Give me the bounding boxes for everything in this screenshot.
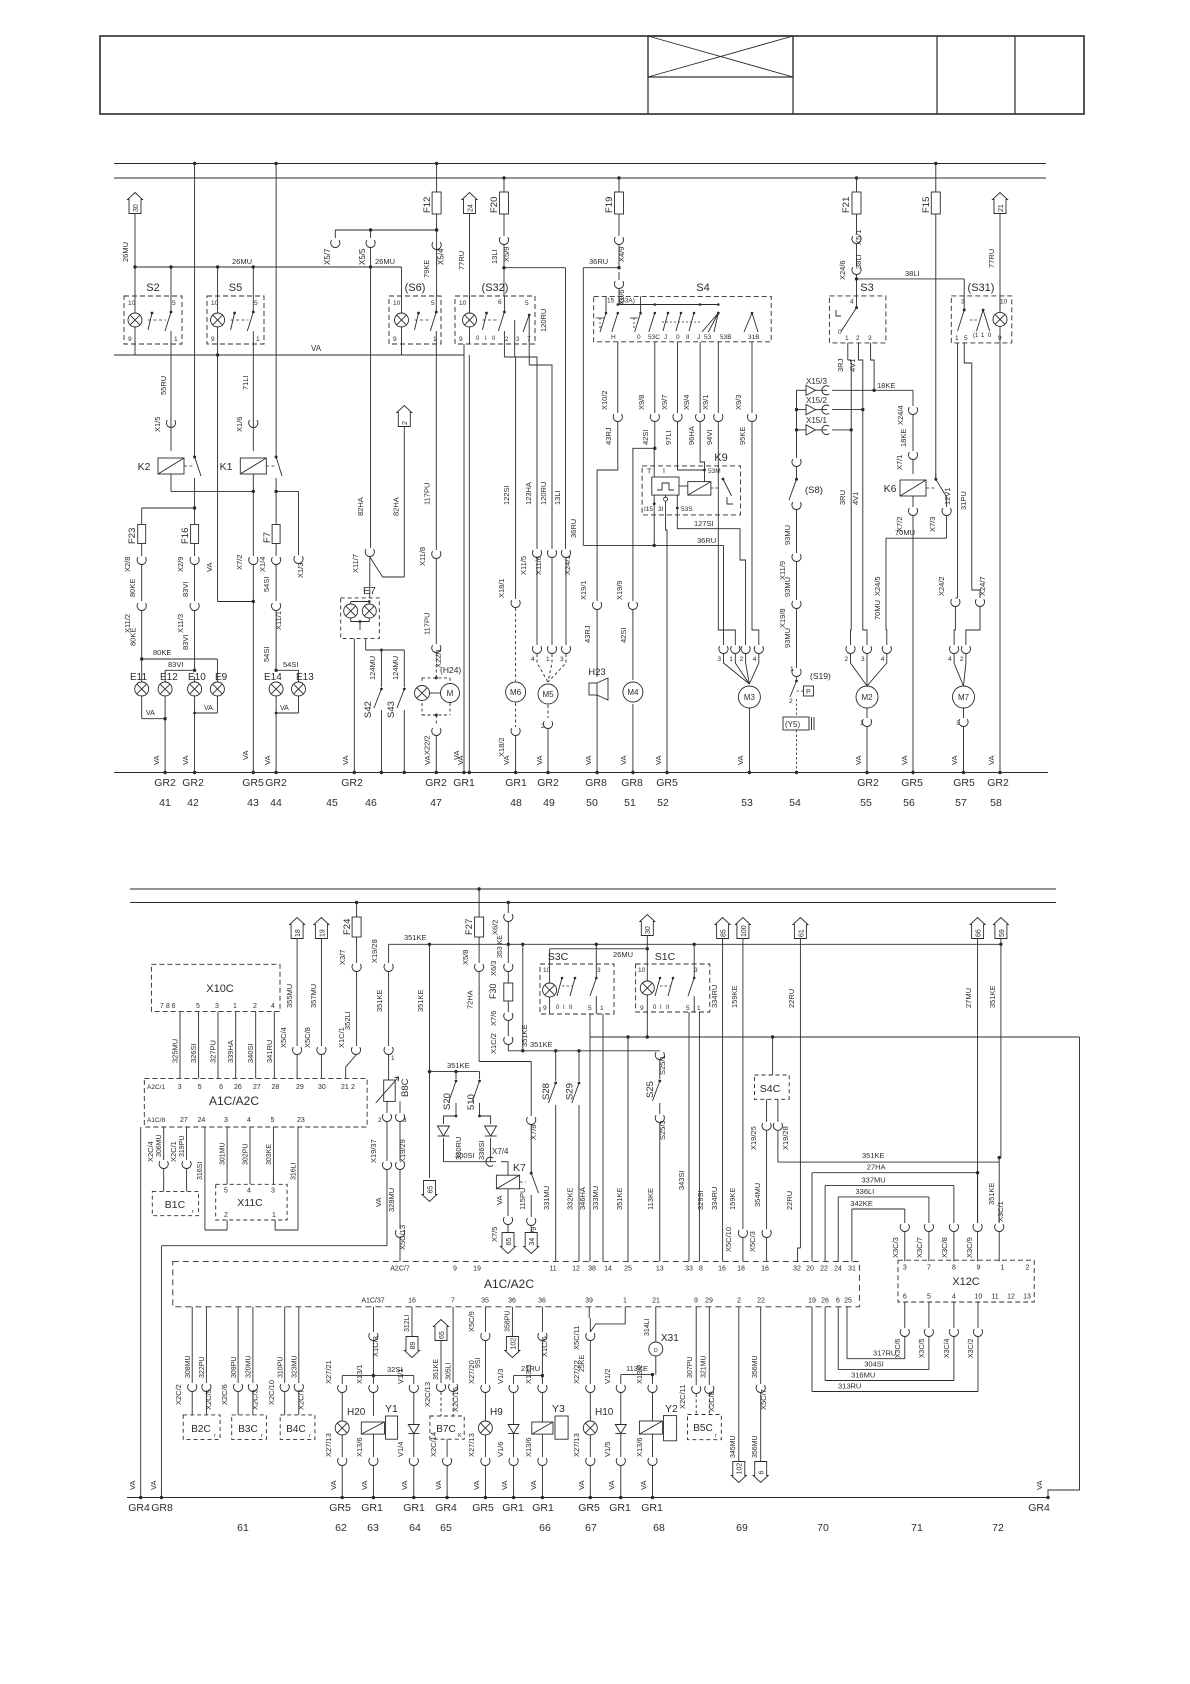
svg-text:GR2: GR2 — [265, 777, 287, 789]
wire 351KE feeder S28/S29 — [523, 1040, 660, 1053]
supply arrow 30 — [128, 193, 143, 268]
diode V1 64 — [396, 1425, 419, 1500]
svg-text:X3C/5: X3C/5 — [919, 1338, 926, 1358]
ground designations row (bottom) — [128, 1502, 1050, 1514]
svg-text:26MU: 26MU — [232, 257, 252, 266]
svg-text:1: 1 — [272, 1212, 276, 1219]
svg-text:GR2: GR2 — [857, 777, 879, 789]
svg-text:65: 65 — [439, 1331, 446, 1339]
svg-text:GR4: GR4 — [128, 1502, 150, 1514]
svg-text:351KE: 351KE — [987, 1182, 996, 1205]
svg-text:B5C: B5C — [693, 1423, 712, 1434]
svg-text:93MU: 93MU — [783, 628, 792, 648]
svg-text:X5C/13: X5C/13 — [398, 1225, 407, 1250]
svg-text:54SI: 54SI — [262, 647, 271, 662]
relay K1 switch — [274, 456, 282, 494]
svg-text:122SI: 122SI — [502, 485, 511, 505]
svg-text:X3C/4: X3C/4 — [944, 1338, 951, 1358]
switch S2 — [124, 282, 182, 344]
svg-text:100: 100 — [741, 925, 748, 937]
svg-text:0: 0 — [637, 334, 641, 341]
wire left VA to GR4 — [128, 1127, 142, 1499]
connector X2/8 — [123, 557, 146, 601]
motor M6 — [497, 682, 526, 774]
wire 316SI to X11C pin2 — [197, 1127, 227, 1230]
svg-text:316SI: 316SI — [197, 1162, 204, 1180]
svg-text:X1C/1: X1C/1 — [337, 1027, 346, 1048]
wire S1C pin5/pin1 drops to pins 33/8 — [677, 1012, 705, 1261]
svg-text:50: 50 — [586, 797, 598, 809]
svg-text:9: 9 — [211, 336, 215, 343]
svg-text:326SI: 326SI — [189, 1043, 198, 1063]
wire 340SI X10C to A1C pin 27 — [246, 1011, 256, 1078]
svg-text:I15: I15 — [644, 506, 653, 513]
wire (S31) lamp to GR2 col58 — [987, 343, 1002, 774]
svg-text:X18/1: X18/1 — [497, 578, 506, 598]
connector X1/4 — [258, 557, 281, 601]
motor M2 body — [854, 686, 878, 774]
svg-text:GR1: GR1 — [361, 1502, 383, 1514]
motor M4 — [619, 682, 643, 774]
svg-text:5: 5 — [172, 300, 176, 307]
svg-text:VA: VA — [400, 1481, 409, 1490]
bus line 15 (top supply rail 2) — [114, 177, 1046, 179]
svg-text:356MU: 356MU — [752, 1355, 759, 1378]
svg-text:X7/8: X7/8 — [529, 1125, 538, 1140]
svg-text:X2C/8: X2C/8 — [707, 1391, 716, 1412]
wire 120RU (S32) to M5 pin1 — [529, 344, 556, 645]
svg-text:E11: E11 — [130, 672, 147, 683]
svg-text:II: II — [569, 1005, 573, 1011]
pressure switch (S19) — [789, 666, 831, 717]
wire GR8 col50 stub — [0, 0, 1, 1]
svg-text:70MU: 70MU — [873, 600, 882, 620]
svg-text:27: 27 — [253, 1084, 261, 1091]
svg-text:2: 2 — [253, 1003, 257, 1010]
svg-text:71: 71 — [911, 1522, 923, 1534]
connector X11C — [216, 1184, 287, 1220]
svg-text:X19/37: X19/37 — [369, 1139, 378, 1163]
svg-text:X5/8: X5/8 — [461, 950, 470, 965]
svg-text:X15/3: X15/3 — [806, 377, 827, 386]
svg-text:X2/9: X2/9 — [176, 557, 185, 572]
svg-text:VA: VA — [1035, 1481, 1044, 1490]
wire 42SI X9/8 to M4 — [615, 342, 659, 680]
svg-text:5: 5 — [198, 1084, 202, 1091]
svg-text:72HA: 72HA — [466, 990, 475, 1009]
svg-text:S20: S20 — [442, 1093, 453, 1110]
svg-text:X2C/7: X2C/7 — [297, 1389, 306, 1410]
svg-text:J: J — [664, 334, 667, 341]
svg-text:351KE: 351KE — [375, 989, 384, 1012]
svg-text:9: 9 — [543, 1005, 547, 1012]
svg-text:5: 5 — [525, 300, 529, 307]
svg-text:96HA: 96HA — [687, 426, 696, 445]
svg-text:F27: F27 — [464, 919, 475, 935]
switch S42 — [363, 650, 383, 774]
svg-text:55RU: 55RU — [159, 376, 168, 395]
svg-text:25: 25 — [624, 1266, 632, 1273]
svg-text:2: 2 — [402, 421, 409, 425]
svg-text:309PU: 309PU — [231, 1357, 238, 1378]
svg-text:X5/4: X5/4 — [437, 248, 446, 265]
svg-text:X3C/1: X3C/1 — [996, 1201, 1005, 1222]
heater motor (H24) — [415, 665, 462, 726]
wire S5 lamp feed — [217, 267, 219, 296]
wire 82HA diagonal link — [370, 497, 405, 577]
svg-text:VA: VA — [639, 1481, 648, 1490]
svg-text:X3/7: X3/7 — [338, 950, 347, 965]
relay K7 switch — [518, 1172, 539, 1217]
title block table — [100, 36, 1084, 114]
svg-text:336LI: 336LI — [856, 1187, 875, 1196]
svg-text:GR2: GR2 — [341, 777, 363, 789]
wire 303KE to X11C pin3 — [266, 1127, 273, 1184]
svg-text:41: 41 — [159, 797, 171, 809]
lamp E12 — [158, 672, 178, 696]
lamp E14 — [264, 672, 283, 696]
svg-text:5: 5 — [271, 1117, 275, 1124]
lamp E10 — [188, 672, 207, 696]
svg-text:X6/2: X6/2 — [491, 920, 500, 935]
valve Y1 — [355, 1416, 398, 1499]
wire K9 T-pin to 36RU node — [653, 515, 656, 547]
svg-text:3: 3 — [868, 335, 872, 342]
wire S5 pin9 to VA — [217, 344, 219, 355]
supply arrow 100 — [735, 918, 750, 939]
wire S2 switch feed — [170, 267, 172, 296]
svg-text:X2C/4: X2C/4 — [146, 1141, 155, 1162]
connector X5C/8 — [303, 1027, 326, 1078]
lamp H20 — [324, 1421, 349, 1499]
svg-text:339HA: 339HA — [226, 1040, 235, 1063]
svg-text:X24/7: X24/7 — [978, 576, 987, 596]
column numbers 41-58 — [159, 797, 1002, 809]
supply arrow 21 — [987, 193, 1008, 313]
svg-text:6: 6 — [903, 1294, 907, 1301]
svg-text:327PU: 327PU — [209, 1040, 218, 1063]
svg-text:VA: VA — [495, 1196, 504, 1205]
svg-text:2: 2 — [856, 335, 860, 342]
svg-text:K6: K6 — [884, 483, 897, 495]
wire 18KE to X24/4 K6 — [895, 405, 918, 474]
wire 316MU return staircase — [825, 1302, 958, 1381]
svg-text:82HA: 82HA — [356, 497, 365, 516]
arrow 65 (up) B7C feed — [433, 1320, 449, 1384]
switch (S6) — [389, 282, 441, 344]
svg-text:GR1: GR1 — [403, 1502, 425, 1514]
fuse F12 — [422, 162, 441, 296]
svg-text:X3C/9: X3C/9 — [965, 1237, 974, 1258]
svg-text:316LI: 316LI — [291, 1162, 298, 1180]
fuse F15 — [921, 162, 940, 474]
svg-text:18: 18 — [737, 1266, 745, 1273]
wire X15 common vertical — [795, 390, 798, 458]
svg-text:312LI: 312LI — [404, 1314, 411, 1332]
diode V left — [438, 1116, 457, 1162]
svg-text:X5/7: X5/7 — [323, 248, 332, 265]
svg-text:54SI: 54SI — [262, 577, 271, 592]
valve (Y5) — [783, 717, 814, 774]
wire 341RU X10C to A1C pin 28 — [265, 1011, 275, 1078]
svg-text:51: 51 — [624, 797, 636, 809]
bus line (bottom section rail 1) — [130, 888, 1056, 890]
svg-text:X22/2: X22/2 — [423, 735, 432, 755]
svg-text:X5/5: X5/5 — [358, 248, 367, 265]
sensor B8C (variable resistor) — [376, 1072, 411, 1124]
svg-text:77RU: 77RU — [987, 249, 996, 268]
svg-text:55: 55 — [860, 797, 872, 809]
wire 351KE rail R943 — [389, 933, 1003, 959]
svg-text:S4C: S4C — [760, 1083, 781, 1095]
svg-text:X24/1: X24/1 — [563, 555, 572, 575]
svg-text:159KE: 159KE — [728, 1187, 737, 1210]
wire 38LI to (S31) — [838, 260, 964, 296]
svg-text:VA: VA — [152, 756, 161, 765]
svg-text:(53A): (53A) — [619, 298, 635, 305]
wire 3RJ S3 pin1 to M2 pin2 — [836, 343, 851, 645]
svg-text:4: 4 — [881, 656, 885, 663]
supply arrow 59 — [993, 918, 1008, 939]
diode V1/3 branch — [496, 1369, 518, 1424]
svg-text:H10: H10 — [595, 1407, 614, 1418]
svg-text:VA: VA — [434, 1481, 443, 1490]
svg-text:M6: M6 — [510, 688, 522, 697]
wire 319PU to B1C — [169, 1127, 191, 1191]
svg-text:1: 1 — [256, 336, 260, 343]
svg-text:X13/6: X13/6 — [524, 1437, 533, 1457]
svg-text:351KE: 351KE — [416, 989, 425, 1012]
wire E11-E12 common to GR2 col41 — [142, 696, 167, 774]
svg-text:V1/2: V1/2 — [603, 1369, 612, 1384]
svg-text:A1C/A2C: A1C/A2C — [484, 1277, 534, 1291]
svg-text:13: 13 — [656, 1266, 664, 1273]
connector X9/6 — [614, 272, 626, 305]
svg-text:X5C/10: X5C/10 — [724, 1227, 733, 1252]
svg-text:(S6): (S6) — [405, 282, 426, 294]
fuse F20 — [489, 176, 509, 236]
wire 327PU X10C to A1C pin 6 — [209, 1011, 219, 1078]
connector X2/9 — [176, 557, 199, 601]
svg-text:127SI: 127SI — [694, 519, 714, 528]
svg-text:351KE: 351KE — [615, 1187, 624, 1210]
svg-text:12: 12 — [1007, 1294, 1015, 1301]
svg-text:102: 102 — [737, 1463, 744, 1475]
svg-text:X5C/9: X5C/9 — [467, 1311, 476, 1332]
wire 82HA X5/5 to X11/7 — [351, 267, 374, 573]
svg-text:16: 16 — [718, 1266, 726, 1273]
svg-text:66: 66 — [539, 1522, 551, 1534]
svg-text:53: 53 — [704, 334, 712, 341]
svg-text:X24/2: X24/2 — [937, 576, 946, 596]
svg-text:VA: VA — [502, 756, 511, 765]
svg-text:(H24): (H24) — [440, 665, 461, 675]
svg-text:X7/1: X7/1 — [895, 455, 904, 470]
wire F16 feed — [194, 508, 196, 524]
svg-text:M2: M2 — [861, 693, 873, 702]
svg-text:F19: F19 — [604, 197, 615, 213]
svg-text:GR2: GR2 — [425, 777, 447, 789]
svg-text:GR1: GR1 — [453, 777, 475, 789]
motor M2 pin arcs — [845, 646, 892, 686]
svg-text:X5/9: X5/9 — [502, 247, 511, 262]
svg-text:F30: F30 — [488, 983, 498, 999]
wire 351KE X19/28 drop — [370, 939, 395, 1072]
svg-text:X12C: X12C — [952, 1276, 980, 1288]
wire S4 pin 15 feed — [618, 296, 620, 304]
svg-text:M3: M3 — [744, 693, 756, 702]
wire 94VI X9/1 to M3 pin1 — [701, 342, 735, 645]
svg-text:80KE: 80KE — [128, 579, 137, 597]
svg-text:M4: M4 — [627, 688, 639, 697]
wire 310PU/323MU to B4C — [267, 1307, 306, 1415]
lamp H20 branch — [324, 1360, 366, 1421]
svg-text:GR4: GR4 — [1028, 1502, 1050, 1514]
svg-text:18KE: 18KE — [899, 429, 908, 447]
svg-text:5: 5 — [431, 300, 435, 307]
svg-text:10: 10 — [459, 300, 467, 307]
svg-text:3: 3 — [597, 967, 601, 974]
svg-text:A1C/A2C: A1C/A2C — [209, 1094, 259, 1108]
sensor B7C — [423, 1382, 464, 1499]
svg-text:1: 1 — [233, 1003, 237, 1010]
svg-text:X7/3: X7/3 — [928, 517, 937, 532]
wire 342KE staircase — [850, 1199, 909, 1261]
lamp H9 chain — [467, 1307, 503, 1421]
svg-text:VA: VA — [736, 756, 745, 765]
switch S25 — [645, 1051, 667, 1262]
svg-text:30: 30 — [133, 204, 140, 212]
svg-text:89: 89 — [410, 1342, 417, 1350]
svg-text:(1: (1 — [973, 333, 979, 339]
svg-text:H20: H20 — [347, 1407, 366, 1418]
svg-text:E12: E12 — [160, 672, 178, 683]
fuse F7 — [262, 525, 280, 557]
svg-text:0: 0 — [838, 329, 842, 336]
svg-text:X9/3: X9/3 — [734, 395, 743, 410]
wire 301MU to X11C pin5 — [220, 1127, 228, 1184]
svg-text:329SI: 329SI — [696, 1190, 705, 1210]
switch S1C — [636, 951, 710, 1012]
wire K7 coil to X7/5 — [490, 1189, 516, 1254]
svg-text:3: 3 — [215, 1003, 219, 1010]
connector X12C — [898, 1260, 1034, 1302]
svg-text:F21: F21 — [841, 197, 852, 213]
svg-text:4: 4 — [531, 656, 535, 663]
svg-text:X7/6: X7/6 — [489, 1011, 498, 1026]
wire E14-E13 common to GR2 col44 — [263, 696, 299, 774]
svg-text:345MU: 345MU — [730, 1435, 737, 1458]
wire 13LI to M5 pin3 — [553, 310, 572, 645]
svg-text:D: D — [654, 1348, 658, 1354]
diode V1/1 branch — [396, 1369, 418, 1424]
connector X19/8 — [778, 601, 801, 668]
svg-text:31: 31 — [848, 1266, 856, 1273]
svg-text:351KE: 351KE — [530, 1040, 553, 1049]
svg-text:X27/13: X27/13 — [324, 1433, 333, 1457]
svg-text:83VI: 83VI — [181, 582, 190, 597]
wire VA jog to X7/2 wire — [205, 355, 255, 603]
wire X7/2 to GR5 col56 — [900, 538, 915, 774]
svg-text:351KE: 351KE — [520, 1024, 529, 1047]
svg-text:GR8: GR8 — [585, 777, 607, 789]
wire 26MU distribution rail — [121, 242, 402, 296]
svg-text:1: 1 — [697, 1005, 701, 1012]
svg-text:VA: VA — [423, 756, 432, 765]
svg-text:X2/8: X2/8 — [123, 557, 132, 572]
wire B8C pin3 328MU to A2C/7 — [387, 1122, 407, 1261]
connector X7/3 — [928, 508, 951, 538]
diode V1 66 — [496, 1425, 519, 1500]
svg-text:26: 26 — [234, 1084, 242, 1091]
svg-text:56: 56 — [903, 797, 915, 809]
svg-text:M: M — [447, 689, 454, 698]
svg-text:117PU: 117PU — [423, 483, 432, 505]
wire bus drop to K1 switch — [274, 162, 277, 456]
wire 302PU to X11C pin4 — [243, 1127, 251, 1184]
svg-text:31PU: 31PU — [959, 491, 968, 510]
svg-text:V1/4: V1/4 — [396, 1442, 405, 1457]
svg-text:83VI: 83VI — [168, 660, 183, 669]
ground designations GR2/GR5/GR8/GR1 row — [154, 777, 1009, 789]
svg-text:2: 2 — [378, 1117, 382, 1124]
svg-text:42: 42 — [187, 797, 199, 809]
svg-text:S2: S2 — [146, 282, 159, 294]
svg-text:X2C/2: X2C/2 — [174, 1384, 183, 1405]
connector labels X3C top — [891, 1237, 974, 1258]
wire E9-E10 common to GR2 col42 — [181, 696, 217, 774]
wire X5/1 F21 to S3 — [852, 230, 863, 275]
svg-text:97LI: 97LI — [664, 430, 673, 445]
svg-text:323MU: 323MU — [292, 1355, 299, 1378]
svg-text:46: 46 — [365, 797, 377, 809]
svg-text:3: 3 — [861, 656, 865, 663]
svg-text:320MU: 320MU — [246, 1355, 253, 1378]
svg-text:63: 63 — [367, 1522, 379, 1534]
lamp cluster E7 — [341, 557, 380, 639]
control unit S4C — [748, 1037, 790, 1261]
motor M3 body — [736, 686, 760, 774]
svg-text:1: 1 — [790, 666, 794, 673]
svg-text:6: 6 — [759, 1471, 766, 1475]
svg-text:X2C/15: X2C/15 — [451, 1387, 460, 1412]
switch S3 — [829, 282, 886, 343]
svg-text:49: 49 — [543, 797, 555, 809]
relay K6 — [884, 480, 937, 496]
wire 31PU (S31) pin5 to M7 pin2 — [959, 343, 987, 645]
arrow 102 (down) pin36 — [505, 1307, 520, 1358]
wire 32SI link — [342, 1365, 414, 1376]
svg-text:VA: VA — [654, 756, 663, 765]
fuse F30 column X6/2 — [488, 901, 525, 1054]
wire X5 header 26MU — [335, 228, 438, 231]
svg-text:9: 9 — [459, 336, 463, 343]
connector X7/2 under K6 — [895, 496, 918, 538]
valve Y2 chain — [635, 1364, 678, 1421]
svg-text:X10C: X10C — [206, 983, 234, 995]
svg-text:X19/9: X19/9 — [615, 580, 624, 600]
svg-text:80KE: 80KE — [153, 648, 171, 657]
switch 510 — [466, 1072, 486, 1160]
svg-text:X11/6: X11/6 — [534, 556, 543, 575]
svg-text:F23: F23 — [127, 528, 138, 544]
svg-text:H9: H9 — [490, 1407, 503, 1418]
svg-text:159KE: 159KE — [730, 985, 739, 1008]
svg-text:V1/1: V1/1 — [396, 1369, 405, 1384]
svg-text:B8C: B8C — [400, 1078, 411, 1097]
svg-text:1: 1 — [433, 336, 437, 343]
svg-text:4: 4 — [247, 1117, 251, 1124]
